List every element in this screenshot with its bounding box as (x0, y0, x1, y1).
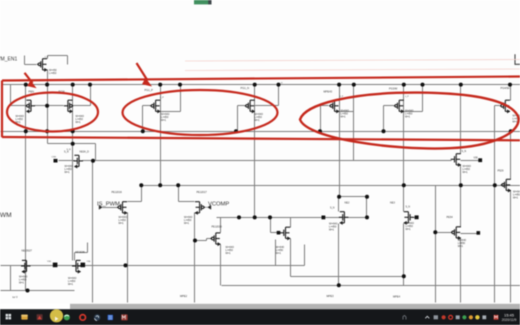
svg-text:P529: P529 (498, 169, 504, 172)
svg-text:M=1: M=1 (68, 282, 74, 286)
svg-text:PG4/Sb: PG4/Sb (501, 86, 511, 90)
svg-text:M=1: M=1 (341, 115, 347, 119)
svg-text:J_P: J_P (45, 56, 49, 58)
svg-text:PWM_EN1: PWM_EN1 (0, 56, 17, 62)
svg-text:PG3/W: PG3/W (389, 86, 398, 90)
svg-text:J_P: J_P (160, 97, 164, 99)
svg-text:NE15027: NE15027 (22, 249, 33, 252)
svg-text:PG1_P: PG1_P (145, 88, 154, 92)
svg-text:M=1: M=1 (513, 196, 519, 200)
svg-text:PE54: PE54 (447, 216, 454, 219)
svg-text:PWM: PWM (0, 212, 12, 219)
svg-text:J_P: J_P (405, 96, 409, 98)
svg-text:MPE4: MPE4 (393, 294, 401, 298)
svg-text:M=1: M=1 (406, 227, 412, 231)
svg-text:2020/11/9: 2020/11/9 (502, 318, 517, 322)
svg-text:PE12019: PE12019 (212, 225, 223, 228)
svg-text:PE12016: PE12016 (112, 191, 123, 194)
svg-text:M=1: M=1 (255, 118, 261, 122)
svg-text:PEN: PEN (29, 89, 34, 93)
svg-text:M=1: M=1 (184, 221, 190, 225)
svg-text:M=1: M=1 (19, 281, 25, 285)
svg-text:PE12017: PE12017 (197, 191, 208, 194)
svg-text:M=1: M=1 (276, 251, 282, 255)
svg-text:V38: V38 (474, 158, 479, 160)
svg-text:M=1: M=1 (119, 221, 125, 225)
svg-text:tur V: tur V (13, 296, 18, 299)
svg-text:MPE43: MPE43 (324, 89, 333, 93)
svg-text:S_N: S_N (330, 208, 335, 210)
svg-text:M=1: M=1 (161, 118, 167, 122)
svg-text:M=1: M=1 (458, 244, 464, 248)
svg-text:MPE3: MPE3 (327, 294, 335, 298)
svg-text:M=1: M=1 (405, 115, 411, 119)
svg-text:M=1: M=1 (65, 170, 71, 174)
svg-text:S_N: S_N (462, 150, 467, 153)
svg-text:M=1: M=1 (76, 120, 82, 124)
svg-text:S_N: S_N (406, 207, 411, 209)
svg-text:VCOMP: VCOMP (208, 202, 229, 208)
svg-text:M=1: M=1 (226, 251, 232, 255)
svg-text:S_N: S_N (67, 149, 72, 151)
svg-text:L=450: L=450 (49, 71, 57, 75)
svg-text:NE3A_D: NE3A_D (80, 150, 90, 153)
svg-text:NF1E36: NF1E36 (76, 251, 86, 254)
svg-text:M=1: M=1 (463, 170, 469, 174)
svg-text:CSS: CSS (52, 157, 57, 159)
svg-text:NE2: NE2 (345, 202, 350, 205)
svg-text:M=1: M=1 (329, 228, 335, 232)
svg-text:PG1_N: PG1_N (241, 86, 250, 90)
svg-text:NE3: NE3 (390, 202, 395, 205)
svg-text:MPE2: MPE2 (180, 294, 188, 298)
svg-text:15:45: 15:45 (504, 313, 515, 318)
svg-text:IS_PWM: IS_PWM (97, 202, 120, 208)
